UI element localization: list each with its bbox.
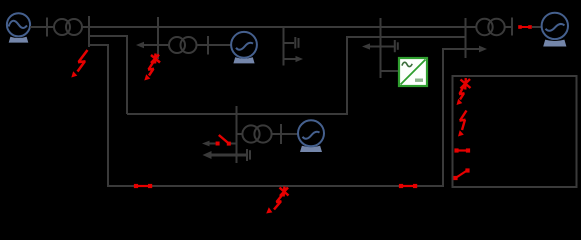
generator G2 [231, 32, 257, 64]
wire G1 to T1 [30, 26, 55, 28]
arrow stub left of busbar B2 [142, 44, 158, 46]
load/arrow line at busbar B3 (y=46.5) [369, 46, 395, 48]
busbar B4 [465, 18, 467, 58]
big arrowhead left on load feeder [203, 151, 212, 159]
open switch line at busbar B5 (y=143.5) [207, 143, 216, 145]
load tick short at B5 feeder [249, 150, 251, 159]
wire red segment to generator G3 [532, 26, 542, 28]
arrowhead left on B3 line [362, 43, 370, 49]
terminal tick T4 right [511, 18, 513, 36]
wire busbar B2 to T2 [158, 44, 170, 46]
open switch S1 (red, open blade with dots) [216, 135, 231, 146]
load tick tall [294, 37, 296, 49]
transformer T2 [169, 37, 197, 53]
busbar B1 [88, 16, 90, 47]
arrowhead of feeder stub [296, 56, 304, 62]
terminal tick T3 right [280, 124, 282, 144]
legend: open switch symbol [453, 168, 469, 180]
wire busbar B3 to converter [381, 70, 400, 72]
generator G4 [298, 120, 324, 152]
arrowhead left on switch line [202, 141, 210, 147]
load tick tall at B3 [394, 40, 396, 52]
busbar B3 [380, 18, 382, 78]
legend box [453, 76, 577, 187]
busbar B5 [236, 106, 238, 163]
wire T1 to busbar B1 [82, 26, 89, 28]
wire tick to generator G2 [208, 44, 232, 46]
wire: long bottom line from B1 (y=45 down, y=186 across, up to y=49) [89, 45, 482, 186]
legend: bolt with star (three-phase fault) [457, 78, 471, 105]
wire: main tie line B1 to B4 (y=27) [89, 26, 466, 28]
converter U1 (PWM box) [399, 58, 427, 86]
wire: line B1 down-route segment (y=36) [89, 36, 127, 114]
wire T3 to tick [272, 133, 282, 135]
fault bolt F1 below busbar B1 [71, 50, 87, 78]
fault bolt F3 on bottom line (with star) [266, 187, 288, 214]
terminal tick T2 right [207, 36, 209, 55]
arrowhead of B2 left stub [136, 42, 144, 48]
wire busbar B5 to T3 [237, 133, 244, 135]
wire T4 to tick [505, 26, 513, 28]
wire: mid horizontal line (y=114) [127, 37, 466, 114]
transformer T4 [476, 19, 504, 35]
fault bolt F2 below busbar B2 (with star) [144, 54, 160, 81]
arrowhead right end of bottom line at B4 [479, 46, 487, 53]
load tick short at B3 [397, 42, 399, 50]
wire switch to busbar B5 [231, 143, 237, 145]
load tick short [298, 38, 300, 48]
wire tick to generator G4 [281, 133, 299, 135]
load feeder with big arrow at busbar B5 (y=155) [209, 154, 246, 157]
load stub of feeder (y=43) [284, 42, 295, 44]
legend: plain bolt (single fault) [458, 111, 467, 137]
busbar B2 [157, 17, 159, 59]
red outage segment near G3 (dot-line-dot) [518, 25, 532, 29]
red outage segment on bottom line (left dot-line-dot) [134, 184, 152, 188]
transformer T3 [242, 125, 271, 142]
generator G1 [7, 13, 30, 42]
transformer T1 [54, 19, 82, 35]
load tick tall at B5 feeder [246, 149, 248, 161]
red outage segment on bottom line (right dot-line-dot) [399, 184, 417, 188]
wire busbar B4 to T4 [466, 26, 477, 28]
terminal tick T1 left [46, 18, 48, 37]
legend: outage segment (dot-line-dot) [454, 148, 470, 152]
generator G3 [542, 13, 568, 47]
feeder drop from main line (x=283.5) [283, 27, 285, 66]
wire T2 to tick [197, 44, 209, 46]
arrow stub of feeder (y=59) [284, 58, 298, 60]
